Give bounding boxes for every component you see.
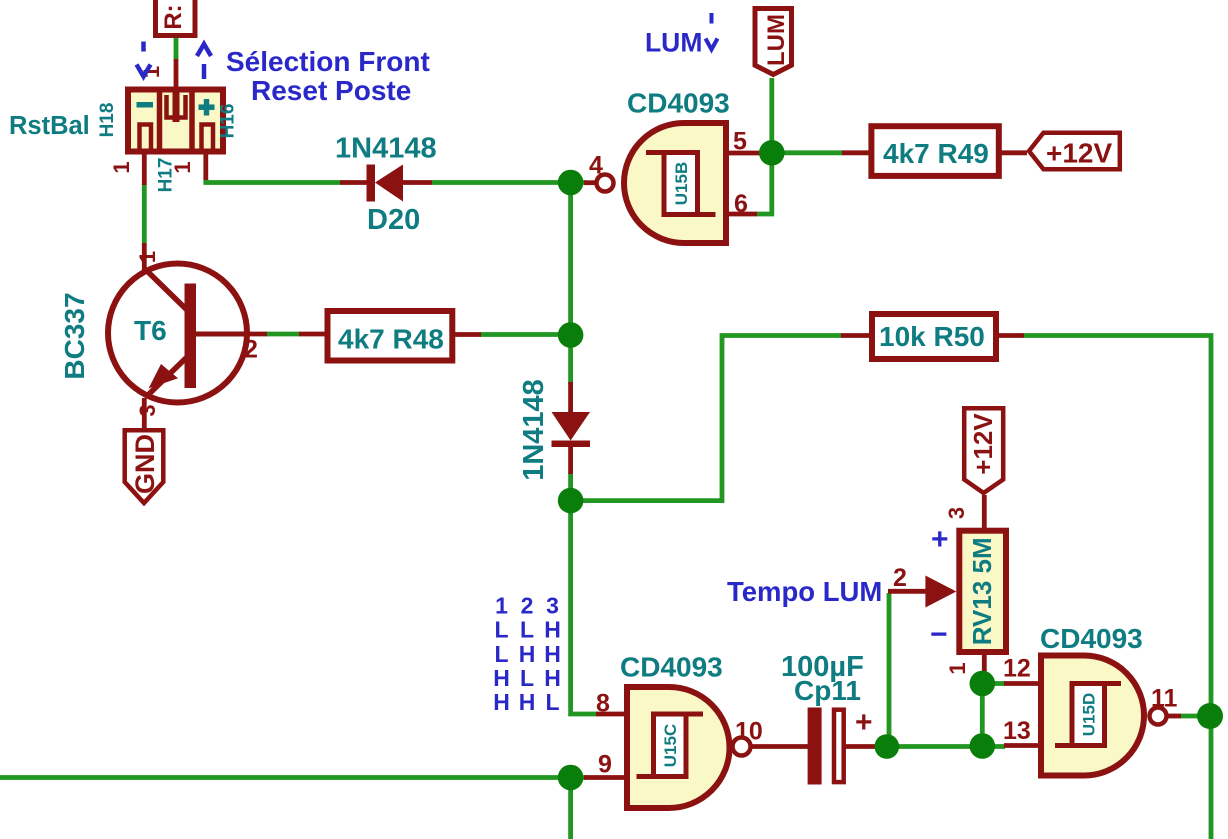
wire: Tempo LUM wiper down to node F (887, 593, 892, 747)
capacitor Cp11 (100µF polarized) (808, 706, 873, 785)
junction node D (558, 488, 584, 514)
svg-text:3: 3 (944, 507, 969, 519)
wire: node B down to U15B pin 6 (756, 153, 772, 214)
svg-text:CD4093: CD4093 (627, 88, 730, 119)
pin stub: U15C pin 8 (596, 712, 624, 717)
pin stub: Cp11 plus side (845, 744, 877, 749)
pin stub: RV13 wiper pin 2 (888, 589, 926, 594)
blue dashed arrow up (Reset Poste) (197, 44, 211, 79)
svg-text:U15C: U15C (661, 724, 680, 767)
junction node H (970, 671, 996, 697)
svg-text:H18: H18 (97, 103, 118, 138)
svg-text:1: 1 (109, 161, 134, 173)
svg-text:D20: D20 (367, 204, 420, 236)
svg-text:RstBal: RstBal (9, 112, 90, 140)
svg-text:4k7 R48: 4k7 R48 (338, 324, 444, 355)
svg-text:10k R50: 10k R50 (879, 321, 985, 352)
op-amp U15C NAND gate CD4093 (627, 687, 751, 808)
pin stub: U15D pin 12 (1004, 681, 1039, 686)
svg-text:8: 8 (596, 690, 610, 718)
wire: node E down to bottom edge (568, 778, 573, 839)
junction node B (759, 140, 785, 166)
pin stub: U15D pin 13 (1004, 743, 1039, 748)
pin stub: D20 anode (340, 180, 368, 185)
wire: connector pin H18 down to T6 collector (142, 184, 147, 244)
pin stub: R48 left (299, 332, 326, 337)
supply flag +12V (above RV13) (964, 408, 1003, 493)
svg-text:13: 13 (1003, 717, 1031, 745)
pin stub: R flag to connector (174, 59, 179, 88)
svg-text:HLH: HLH (493, 665, 561, 691)
op-amp U15B NAND gate CD4093 (mirrored) (597, 123, 727, 243)
svg-text:U15D: U15D (1080, 693, 1099, 736)
pin stub: U15B pin 6 (729, 212, 757, 217)
wire: U15D output to right bus (1180, 714, 1211, 719)
svg-text:9: 9 (598, 751, 612, 779)
svg-text:2: 2 (244, 336, 258, 364)
wire: LUM flag down to node B (769, 78, 774, 153)
junction node C (558, 322, 584, 348)
blue dashed arrow down (Sélection Front) (137, 42, 151, 77)
svg-text:1: 1 (945, 662, 970, 674)
pin stub: D20 cathode (402, 180, 432, 185)
pin stub: RV13 pin 3 (982, 495, 987, 529)
diode D21 (1N4148 vertical) (552, 412, 591, 447)
svg-text:+: + (931, 523, 949, 556)
svg-text:6: 6 (734, 190, 748, 218)
svg-text:+12V: +12V (1046, 138, 1112, 169)
truth table (blue) (493, 593, 561, 716)
resistor R50 (872, 314, 996, 359)
pin stub: connector H18 bottom (142, 153, 147, 185)
svg-text:GND: GND (130, 434, 160, 494)
svg-text:Tempo LUM: Tempo LUM (727, 576, 882, 607)
svg-text:H16: H16 (218, 104, 239, 139)
pin stub: T6 collector (142, 243, 147, 270)
svg-text:11: 11 (1151, 685, 1178, 713)
svg-text:2: 2 (893, 564, 907, 592)
pin stub: U15B pin 5 (729, 151, 760, 156)
pin stub: T6 emitter to GND (142, 398, 147, 429)
svg-text:4k7 R49: 4k7 R49 (883, 138, 989, 169)
junction node I (U15D output) (1197, 703, 1223, 729)
svg-text:1N4148: 1N4148 (335, 133, 437, 165)
svg-text:U15B: U15B (672, 162, 691, 205)
op-amp U15D NAND gate CD4093 (1041, 656, 1167, 776)
resistor R49 (871, 126, 998, 176)
blue dashed arrow down (LUM) (706, 13, 718, 50)
wire: RV13 pin 1 to node H (982, 670, 987, 684)
net flag R (cut off at top) (156, 0, 196, 36)
wire: T6 base to resistor R48 (266, 332, 300, 337)
svg-text:T6: T6 (134, 315, 167, 346)
wire: bottom net into U15C pin 9 (node E) (0, 775, 586, 780)
net flag LUM (755, 9, 792, 75)
pin stub: U15D output pin 11 (1167, 714, 1181, 719)
junction node G (970, 733, 996, 759)
svg-text:Reset Poste: Reset Poste (251, 75, 411, 106)
wire: node H to U15D pin 12 and down to node G (982, 684, 1005, 747)
wire: node D to R50 left elbow (582, 336, 842, 501)
wire: node C down to diode D21 anode (568, 335, 573, 384)
svg-text:CD4093: CD4093 (1040, 623, 1143, 654)
svg-text:12: 12 (1003, 655, 1031, 683)
junction node A (558, 170, 584, 196)
svg-text:LHH: LHH (494, 641, 560, 667)
svg-text:3: 3 (135, 404, 160, 416)
pin stub: R50 left (841, 333, 870, 338)
pin stub: U15C output pin 10 to Cp11 (750, 744, 808, 749)
pin stub: R49 left (842, 150, 869, 155)
junction node F (875, 734, 900, 759)
svg-text:−: − (930, 618, 948, 651)
svg-text:+12V: +12V (968, 413, 998, 475)
pin stub: R49 right to +12V flag (1001, 150, 1027, 155)
svg-text:LUM: LUM (763, 14, 790, 66)
wire: connector pin H16 elbow to diode D20 (206, 179, 341, 183)
pin stub: connector H16 bottom (203, 153, 208, 180)
ground flag GND (125, 430, 164, 503)
pin stub: D21 cathode (568, 446, 573, 474)
svg-text:1N4148: 1N4148 (518, 379, 550, 481)
wire: diode D21 cathode to node D (568, 473, 573, 501)
wire: D20 cathode side to node A (431, 180, 586, 185)
pin stub: R48 right (454, 332, 481, 337)
diode D20 (1N4148) (367, 165, 404, 202)
svg-text:R:: R: (160, 4, 187, 29)
svg-text:BC337: BC337 (59, 292, 90, 379)
wire: R50 right to right bus down (1023, 336, 1211, 839)
pin stub: D21 anode (568, 382, 573, 414)
pin stub: U15B output pin 4 (584, 180, 597, 185)
wire: R48 to node C (480, 332, 571, 337)
resistor R48 (328, 311, 453, 361)
svg-text:1: 1 (170, 161, 195, 173)
svg-text:5: 5 (733, 128, 747, 156)
svg-text:Sélection Front: Sélection Front (226, 46, 430, 77)
svg-text:1: 1 (135, 251, 160, 263)
svg-text:Cp11: Cp11 (794, 675, 861, 706)
wire: node F to node G (U15D pin 13 row) (876, 744, 1005, 749)
svg-text:4: 4 (589, 152, 603, 180)
svg-text:123: 123 (495, 593, 559, 619)
svg-text:LLH: LLH (494, 617, 560, 643)
pin stub: U15C pin 9 (584, 775, 624, 780)
wire: net flag R to connector H17 (green segment) (174, 38, 179, 60)
junction node E (558, 765, 584, 791)
svg-text:10: 10 (735, 718, 763, 746)
svg-text:RV13 5M: RV13 5M (967, 537, 997, 645)
wire: node D down to U15C pin 8 elbow (571, 501, 597, 714)
pin stub: RV13 pin 1 (982, 654, 987, 671)
svg-text:CD4093: CD4093 (620, 652, 723, 683)
potentiometer RV13 5M (925, 531, 1006, 652)
connector RstBal (H16/H17/H18) (128, 87, 223, 155)
transistor T6 (BC337) (108, 264, 250, 403)
pin stub: T6 base (196, 332, 267, 337)
supply flag +12V (right of R49) (1029, 133, 1120, 170)
pin stub: R50 right (998, 333, 1024, 338)
svg-text:+: + (855, 706, 873, 739)
svg-text:HHL: HHL (493, 689, 559, 715)
wire: node B to resistor R49 (772, 150, 843, 155)
wire: node A down to node C (R48 junction) (568, 183, 573, 336)
svg-text:LUM: LUM (645, 28, 702, 58)
